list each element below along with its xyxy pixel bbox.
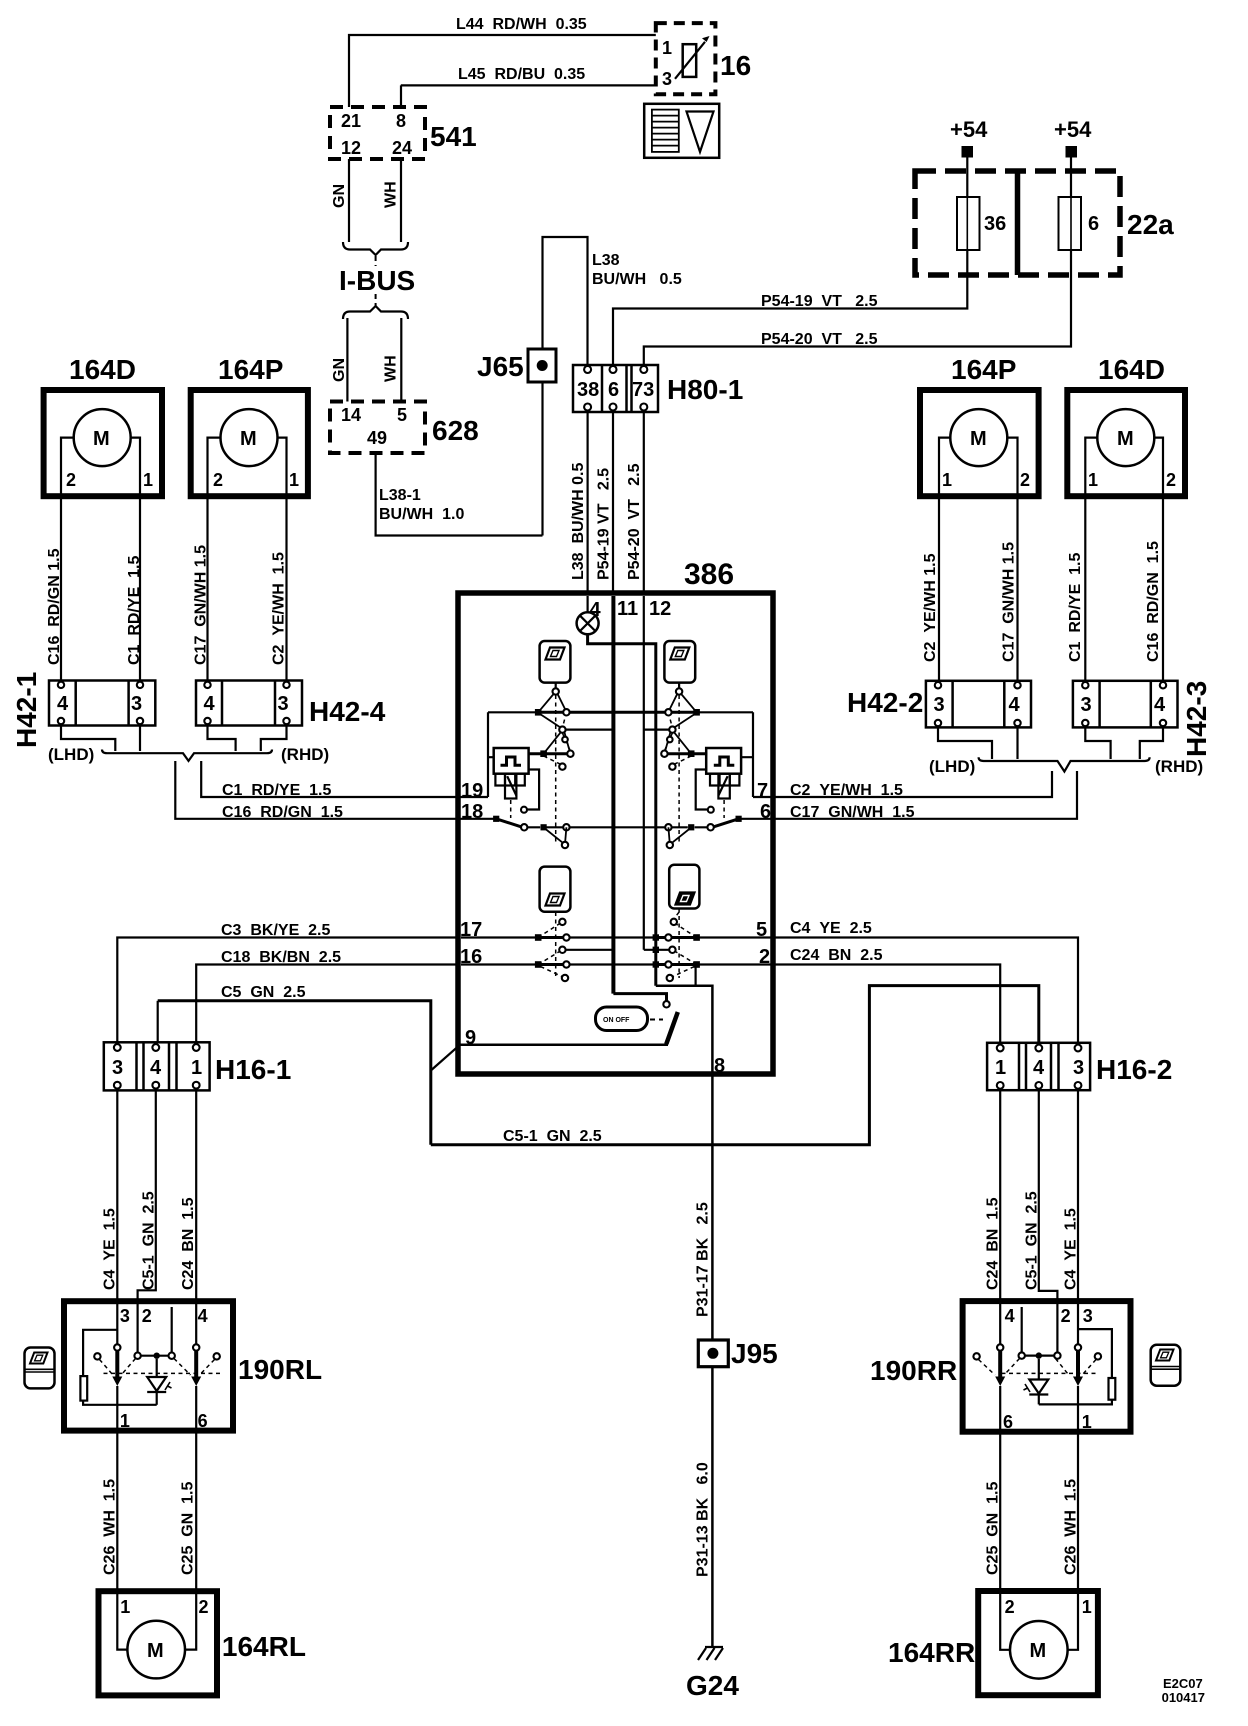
svg-text:1: 1	[120, 1597, 130, 1617]
svg-text:C5-1 GN 2.5: C5-1 GN 2.5	[1024, 1191, 1041, 1290]
svg-text:16: 16	[720, 50, 751, 81]
svg-text:7: 7	[757, 780, 768, 802]
svg-text:6: 6	[198, 1411, 208, 1431]
svg-text:38: 38	[577, 379, 599, 401]
svg-text:C1 RD/YE 1.5: C1 RD/YE 1.5	[1067, 553, 1084, 662]
svg-text:M: M	[1117, 428, 1134, 450]
svg-text:C2 YE/WH 1.5: C2 YE/WH 1.5	[271, 552, 288, 665]
svg-text:H42-4: H42-4	[309, 696, 386, 727]
svg-text:H42-1: H42-1	[11, 672, 42, 748]
svg-text:1: 1	[289, 470, 299, 490]
svg-text:C18 BK/BN 2.5: C18 BK/BN 2.5	[221, 949, 341, 966]
svg-text:P54-20 VT 2.5: P54-20 VT 2.5	[761, 331, 878, 348]
svg-text:4: 4	[57, 693, 69, 715]
svg-text:M: M	[1030, 1640, 1047, 1662]
svg-text:11: 11	[617, 598, 638, 620]
svg-text:M: M	[93, 428, 110, 450]
svg-text:19: 19	[461, 780, 483, 802]
svg-text:C2 YE/WH 1.5: C2 YE/WH 1.5	[790, 782, 903, 799]
svg-text:73: 73	[632, 379, 654, 401]
svg-text:2: 2	[142, 1306, 152, 1326]
svg-text:3: 3	[1083, 1306, 1093, 1326]
svg-text:BU/WH 1.0: BU/WH 1.0	[379, 506, 464, 523]
svg-text:4: 4	[1005, 1306, 1015, 1326]
svg-text:6: 6	[1088, 213, 1099, 235]
svg-text:(RHD): (RHD)	[281, 745, 329, 764]
svg-text:C5 GN 2.5: C5 GN 2.5	[221, 984, 306, 1001]
svg-text:C16 RD/GN 1.5: C16 RD/GN 1.5	[46, 548, 63, 665]
svg-text:M: M	[240, 428, 257, 450]
svg-text:G24: G24	[686, 1670, 739, 1701]
svg-text:2: 2	[199, 1597, 209, 1617]
svg-text:GN: GN	[331, 184, 348, 208]
svg-text:164P: 164P	[951, 354, 1016, 385]
svg-text:4: 4	[1009, 694, 1021, 716]
svg-text:C24 BN 1.5: C24 BN 1.5	[180, 1197, 197, 1290]
svg-text:4: 4	[590, 599, 602, 621]
svg-text:L45 RD/BU 0.35: L45 RD/BU 0.35	[458, 66, 585, 83]
svg-text:8: 8	[396, 111, 406, 131]
svg-text:H16-2: H16-2	[1096, 1054, 1172, 1085]
svg-text:P31-17 BK 2.5: P31-17 BK 2.5	[695, 1202, 712, 1317]
svg-text:21: 21	[341, 111, 361, 131]
svg-text:C25 GN 1.5: C25 GN 1.5	[180, 1482, 197, 1575]
svg-text:6: 6	[608, 379, 619, 401]
svg-text:ON OFF: ON OFF	[603, 1017, 630, 1024]
svg-text:3: 3	[662, 69, 672, 89]
svg-text:12: 12	[649, 598, 671, 620]
svg-text:(LHD): (LHD)	[48, 745, 94, 764]
svg-text:190RL: 190RL	[238, 1354, 322, 1385]
svg-text:C26 WH 1.5: C26 WH 1.5	[102, 1479, 119, 1575]
svg-text:1: 1	[1082, 1412, 1092, 1432]
svg-text:4: 4	[198, 1306, 208, 1326]
svg-text:C5-1 GN 2.5: C5-1 GN 2.5	[141, 1191, 158, 1290]
svg-text:2: 2	[1020, 470, 1030, 490]
svg-text:1: 1	[995, 1057, 1006, 1079]
svg-text:C2 YE/WH 1.5: C2 YE/WH 1.5	[922, 553, 939, 662]
svg-text:I-BUS: I-BUS	[339, 265, 415, 296]
svg-text:2: 2	[213, 470, 223, 490]
svg-text:3: 3	[1081, 694, 1092, 716]
svg-text:49: 49	[367, 428, 387, 448]
svg-text:+54: +54	[950, 117, 988, 142]
svg-text:P54-19 VT 2.5: P54-19 VT 2.5	[596, 468, 613, 580]
svg-text:C17 GN/WH 1.5: C17 GN/WH 1.5	[1001, 542, 1018, 662]
svg-text:BU/WH 0.5: BU/WH 0.5	[592, 271, 682, 288]
svg-text:C24 BN 2.5: C24 BN 2.5	[790, 947, 883, 964]
svg-text:C17 GN/WH 1.5: C17 GN/WH 1.5	[193, 545, 210, 665]
svg-text:2: 2	[1061, 1306, 1071, 1326]
svg-text:36: 36	[984, 213, 1006, 235]
svg-text:+54: +54	[1054, 117, 1092, 142]
svg-text:C25 GN 1.5: C25 GN 1.5	[985, 1482, 1002, 1575]
svg-text:C1 RD/YE 1.5: C1 RD/YE 1.5	[126, 556, 143, 665]
svg-text:M: M	[147, 1640, 164, 1662]
svg-text:2: 2	[1005, 1597, 1015, 1617]
svg-text:J95: J95	[731, 1338, 778, 1369]
svg-text:C3 BK/YE 2.5: C3 BK/YE 2.5	[221, 922, 330, 939]
svg-text:164P: 164P	[218, 354, 283, 385]
svg-text:L38-1: L38-1	[379, 487, 421, 504]
svg-text:190RR: 190RR	[870, 1355, 957, 1386]
svg-text:4: 4	[204, 693, 216, 715]
svg-text:5: 5	[397, 405, 407, 425]
svg-text:4: 4	[150, 1057, 162, 1079]
svg-text:14: 14	[341, 405, 361, 425]
svg-text:E2C07: E2C07	[1163, 1676, 1203, 1691]
svg-text:H80-1: H80-1	[667, 374, 743, 405]
svg-text:2: 2	[66, 470, 76, 490]
svg-text:22a: 22a	[1127, 209, 1174, 240]
svg-text:010417: 010417	[1162, 1690, 1205, 1705]
svg-text:4: 4	[1033, 1057, 1045, 1079]
svg-text:1: 1	[662, 38, 672, 58]
svg-text:L38 BU/WH 0.5: L38 BU/WH 0.5	[570, 463, 587, 580]
svg-text:(LHD): (LHD)	[929, 757, 975, 776]
svg-text:H16-1: H16-1	[215, 1054, 291, 1085]
svg-text:164RL: 164RL	[222, 1631, 306, 1662]
svg-text:3: 3	[1073, 1057, 1084, 1079]
svg-text:3: 3	[278, 693, 289, 715]
svg-text:C4 YE 2.5: C4 YE 2.5	[790, 920, 872, 937]
svg-text:C4 YE 1.5: C4 YE 1.5	[102, 1208, 119, 1290]
svg-text:3: 3	[112, 1057, 123, 1079]
svg-text:WH: WH	[383, 355, 400, 382]
svg-text:C16 RD/GN 1.5: C16 RD/GN 1.5	[1145, 541, 1162, 662]
svg-text:C5-1 GN 2.5: C5-1 GN 2.5	[503, 1128, 602, 1145]
svg-text:P31-13 BK 6.0: P31-13 BK 6.0	[695, 1462, 712, 1577]
svg-text:3: 3	[131, 693, 142, 715]
svg-text:628: 628	[432, 415, 479, 446]
svg-text:24: 24	[392, 138, 412, 158]
svg-text:4: 4	[1154, 694, 1166, 716]
svg-text:C16 RD/GN 1.5: C16 RD/GN 1.5	[222, 804, 343, 821]
svg-text:M: M	[970, 428, 987, 450]
svg-text:386: 386	[684, 558, 734, 591]
svg-text:1: 1	[143, 470, 153, 490]
svg-text:L38: L38	[592, 252, 620, 269]
svg-text:P54-20 VT 2.5: P54-20 VT 2.5	[626, 463, 643, 580]
svg-text:P54-19 VT 2.5: P54-19 VT 2.5	[761, 293, 878, 310]
svg-text:164D: 164D	[1098, 354, 1165, 385]
svg-text:(RHD): (RHD)	[1155, 757, 1203, 776]
svg-text:C26 WH 1.5: C26 WH 1.5	[1063, 1479, 1080, 1575]
svg-text:C4 YE 1.5: C4 YE 1.5	[1063, 1208, 1080, 1290]
svg-text:1: 1	[942, 470, 952, 490]
svg-text:12: 12	[341, 138, 361, 158]
svg-text:3: 3	[120, 1306, 130, 1326]
svg-text:164D: 164D	[69, 354, 136, 385]
svg-text:GN: GN	[331, 358, 348, 382]
svg-text:3: 3	[934, 694, 945, 716]
svg-text:164RR: 164RR	[888, 1637, 975, 1668]
svg-text:1: 1	[191, 1057, 202, 1079]
svg-text:1: 1	[1082, 1597, 1092, 1617]
svg-text:C17 GN/WH 1.5: C17 GN/WH 1.5	[790, 804, 915, 821]
svg-text:WH: WH	[383, 181, 400, 208]
svg-text:C24 BN 1.5: C24 BN 1.5	[985, 1197, 1002, 1290]
svg-text:6: 6	[1003, 1412, 1013, 1432]
svg-text:J65: J65	[477, 351, 524, 382]
svg-text:L44 RD/WH 0.35: L44 RD/WH 0.35	[456, 16, 587, 33]
svg-text:C1 RD/YE 1.5: C1 RD/YE 1.5	[222, 782, 331, 799]
svg-text:2: 2	[1166, 470, 1176, 490]
svg-text:1: 1	[1088, 470, 1098, 490]
svg-text:H42-3: H42-3	[1181, 681, 1212, 757]
svg-text:H42-2: H42-2	[847, 687, 923, 718]
svg-text:541: 541	[430, 121, 477, 152]
svg-text:1: 1	[120, 1411, 130, 1431]
svg-text:8: 8	[714, 1055, 725, 1077]
